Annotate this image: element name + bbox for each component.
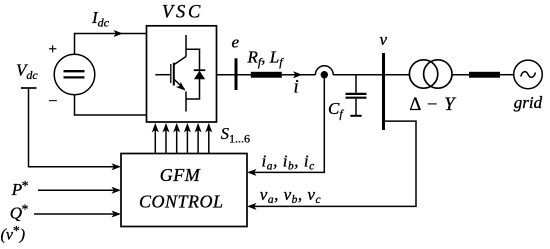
current feedback wire ia ib ic [254, 78, 324, 172]
wire transformer to grid impedance [452, 74, 469, 76]
svg-text:(v*): (v*) [1, 223, 26, 244]
dc source V1 [54, 54, 95, 95]
svg-text:P*: P* [11, 178, 29, 199]
diode D1 branch wire [186, 49, 200, 99]
capacitor Cf [346, 75, 367, 116]
wire Rf to sensor [282, 74, 316, 76]
transistor Q1 (IGBT) [155, 35, 186, 112]
grid impedance block [469, 72, 500, 78]
svg-text:v: v [380, 30, 388, 49]
wire sensor to bus [333, 74, 409, 76]
svg-text:Δ − Y: Δ − Y [409, 95, 456, 115]
P* input wire [38, 189, 115, 191]
svg-text:i: i [294, 78, 299, 98]
Vdc probe tap [21, 88, 115, 167]
svg-text:Q*: Q* [10, 202, 29, 223]
transistor Q1 emitter arrowhead [176, 82, 188, 94]
Q* input wire [34, 213, 115, 215]
svg-text:GFM: GFM [160, 165, 201, 185]
current i arrowhead [293, 71, 303, 78]
svg-text:S1...6: S1...6 [221, 124, 250, 146]
current sensor loop [315, 66, 333, 75]
svg-text:−: − [47, 93, 58, 110]
svg-text:+: + [48, 42, 58, 58]
gate pulse arrows S1..6 into VSC [155, 130, 209, 154]
bus v [382, 53, 385, 130]
voltage feedback wire va vb vc [254, 121, 416, 206]
wire VSC output [217, 74, 252, 76]
P* arrowhead [112, 187, 122, 194]
voltage feedback arrowhead [247, 203, 257, 210]
transformer T1 [409, 60, 452, 88]
node e terminal tick [235, 58, 238, 90]
Idc current arrowhead [114, 30, 124, 37]
gate pulse arrowheads [152, 123, 213, 132]
wire impedance to grid [500, 74, 514, 76]
svg-text:ia, ib, ic: ia, ib, ic [262, 151, 315, 172]
svg-text:Cf: Cf [328, 99, 344, 121]
svg-text:VSC: VSC [162, 2, 203, 22]
svg-text:CONTROL: CONTROL [139, 191, 224, 211]
svg-text:Rf, Lf: Rf, Lf [247, 48, 285, 70]
svg-text:e: e [232, 33, 240, 52]
Q* arrowhead [112, 211, 122, 218]
svg-text:Idc: Idc [91, 8, 110, 30]
current sensor node dot [321, 71, 328, 78]
VSC converter box [147, 26, 217, 122]
Vdc sense arrowhead [112, 163, 122, 170]
svg-text:grid: grid [514, 93, 543, 112]
GFM control box [121, 154, 247, 227]
grid source [514, 60, 543, 89]
wire dc bottom [75, 95, 147, 115]
svg-text:va, vb, vc: va, vb, vc [260, 185, 321, 206]
svg-text:Vdc: Vdc [16, 61, 38, 83]
wire dc top [75, 34, 147, 55]
impedance Rf,Lf block [251, 72, 282, 78]
diode D1 [194, 70, 205, 79]
current feedback arrowhead [247, 169, 257, 176]
